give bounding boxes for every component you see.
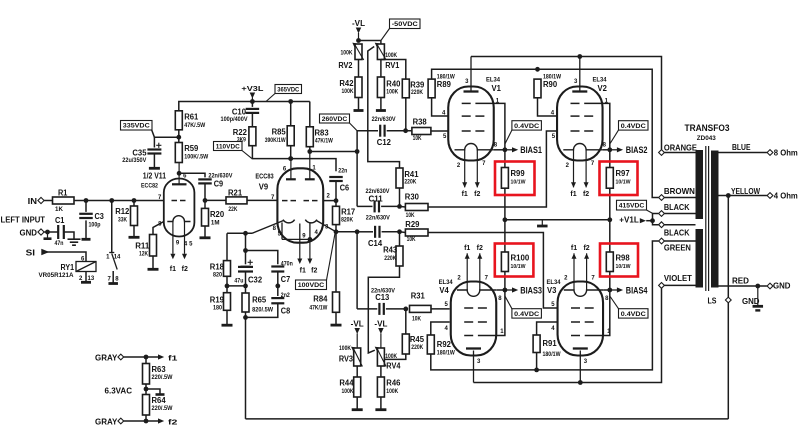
svg-text:R92: R92: [437, 340, 452, 349]
svg-text:f1: f1: [300, 268, 306, 275]
svg-text:12K: 12K: [139, 251, 148, 258]
svg-text:f2: f2: [168, 418, 177, 427]
svg-text:47K/1W: 47K/1W: [309, 304, 327, 311]
svg-text:V4: V4: [439, 285, 449, 295]
svg-text:R40: R40: [386, 79, 401, 88]
svg-text:VIOLET: VIOLET: [664, 274, 692, 283]
svg-text:-VL: -VL: [352, 19, 365, 28]
svg-text:LEFT INPUT: LEFT INPUT: [1, 214, 46, 224]
svg-text:f2: f2: [477, 245, 483, 252]
svg-text:100p/400V: 100p/400V: [221, 116, 249, 123]
svg-text:R61: R61: [184, 112, 199, 121]
svg-text:V3: V3: [547, 285, 557, 295]
svg-text:22K: 22K: [228, 206, 237, 213]
svg-text:R12: R12: [115, 207, 130, 216]
svg-text:BIAS4: BIAS4: [626, 286, 648, 296]
svg-text:47u: 47u: [234, 277, 243, 284]
svg-text:10/1W: 10/1W: [616, 179, 631, 185]
svg-text:220/.5W: 220/.5W: [152, 374, 173, 381]
svg-text:V1: V1: [492, 83, 502, 93]
svg-text:R63: R63: [152, 365, 167, 374]
svg-text:LS: LS: [708, 297, 717, 306]
svg-text:220K: 220K: [411, 344, 423, 351]
svg-text:22n/630V: 22n/630V: [208, 172, 233, 179]
svg-text:22u/350V: 22u/350V: [122, 157, 147, 164]
svg-text:R1: R1: [58, 188, 68, 197]
svg-text:f1: f1: [571, 245, 577, 252]
svg-text:C12: C12: [377, 138, 392, 147]
svg-text:10K: 10K: [407, 236, 416, 243]
svg-text:BIAS2: BIAS2: [626, 145, 648, 155]
svg-text:R44: R44: [339, 379, 354, 388]
svg-text:BLACK: BLACK: [664, 203, 690, 212]
svg-text:180/1W: 180/1W: [437, 350, 455, 357]
svg-text:100K: 100K: [385, 52, 397, 59]
svg-text:TRANSFO3: TRANSFO3: [685, 123, 730, 133]
svg-text:C13: C13: [375, 293, 390, 302]
svg-text:GRAY: GRAY: [95, 417, 118, 426]
svg-text:YELLOW: YELLOW: [731, 187, 760, 196]
svg-text:415VDC: 415VDC: [619, 203, 645, 210]
svg-text:390K/1W: 390K/1W: [265, 137, 286, 144]
svg-text:8 Ohm: 8 Ohm: [774, 148, 798, 157]
svg-text:R43: R43: [383, 245, 398, 254]
svg-text:10/1W: 10/1W: [616, 264, 631, 270]
svg-text:f1: f1: [570, 191, 576, 198]
svg-text:f2: f2: [474, 191, 480, 198]
svg-text:f1: f1: [462, 191, 468, 198]
svg-text:C32: C32: [248, 275, 263, 284]
svg-text:ZD043: ZD043: [697, 135, 716, 142]
svg-text:R100: R100: [511, 253, 530, 262]
svg-text:f1: f1: [168, 354, 177, 363]
svg-text:RV1: RV1: [385, 61, 400, 70]
svg-text:V2: V2: [598, 83, 608, 93]
svg-text:180: 180: [213, 304, 222, 311]
svg-text:R17: R17: [341, 207, 356, 216]
svg-text:820/.5W: 820/.5W: [252, 306, 273, 313]
svg-text:C1: C1: [55, 216, 65, 225]
svg-text:335VDC: 335VDC: [123, 123, 150, 130]
svg-text:10/1W: 10/1W: [511, 179, 526, 185]
svg-text:260VDC: 260VDC: [322, 116, 348, 123]
svg-text:0.4VDC: 0.4VDC: [621, 123, 647, 130]
svg-text:365VDC: 365VDC: [277, 86, 299, 93]
svg-text:R45: R45: [410, 335, 425, 344]
svg-text:180/1W: 180/1W: [543, 351, 561, 358]
svg-text:100K: 100K: [386, 388, 398, 395]
svg-text:R31: R31: [411, 291, 426, 300]
svg-text:R65: R65: [252, 296, 267, 305]
svg-text:100K/.5W: 100K/.5W: [184, 154, 208, 161]
svg-text:IN: IN: [28, 197, 38, 206]
svg-text:R64: R64: [152, 396, 167, 405]
svg-text:+V1L: +V1L: [619, 216, 639, 225]
svg-text:-VL: -VL: [374, 319, 387, 328]
svg-text:SI: SI: [26, 248, 35, 257]
svg-text:33K: 33K: [118, 217, 127, 224]
svg-text:R98: R98: [616, 253, 631, 262]
svg-text:0.4VDC: 0.4VDC: [514, 123, 540, 130]
svg-text:f2: f2: [182, 266, 188, 273]
svg-text:f2: f2: [583, 245, 589, 252]
svg-text:100p: 100p: [89, 221, 101, 228]
svg-text:6.3VAC: 6.3VAC: [105, 386, 133, 395]
svg-text:C7: C7: [281, 275, 291, 284]
svg-text:R42: R42: [339, 79, 354, 88]
svg-text:GND: GND: [20, 228, 38, 237]
svg-text:470n: 470n: [281, 260, 293, 267]
svg-text:100K: 100K: [342, 88, 354, 95]
svg-text:ORANGE: ORANGE: [664, 143, 697, 152]
svg-text:820: 820: [213, 271, 222, 278]
svg-text:R89: R89: [437, 80, 452, 89]
svg-text:100VDC: 100VDC: [298, 282, 325, 289]
svg-text:-50VDC: -50VDC: [392, 21, 418, 28]
svg-text:C11: C11: [369, 194, 384, 203]
svg-text:C3: C3: [95, 211, 105, 221]
svg-text:ECC83: ECC83: [255, 173, 273, 180]
svg-text:R30: R30: [405, 192, 420, 201]
svg-text:220K: 220K: [404, 178, 416, 185]
svg-text:R19: R19: [210, 295, 225, 304]
svg-text:1M: 1M: [211, 219, 220, 226]
svg-text:BIAS3: BIAS3: [520, 286, 542, 296]
svg-text:14: 14: [114, 254, 121, 260]
svg-text:RED: RED: [732, 277, 749, 286]
svg-text:BLACK: BLACK: [664, 228, 690, 237]
svg-text:100K: 100K: [341, 49, 353, 56]
svg-text:R11: R11: [135, 241, 150, 250]
svg-text:R39: R39: [410, 80, 425, 89]
svg-text:47K/1W: 47K/1W: [315, 137, 333, 144]
svg-text:ECC82: ECC82: [141, 182, 158, 189]
svg-text:22n: 22n: [338, 168, 347, 175]
svg-text:BIAS1: BIAS1: [520, 145, 542, 155]
svg-text:100K: 100K: [385, 353, 397, 360]
svg-text:V9: V9: [259, 181, 269, 191]
svg-text:R38: R38: [413, 117, 428, 126]
svg-text:BLUE: BLUE: [732, 143, 751, 152]
svg-text:C6: C6: [340, 184, 350, 193]
svg-text:R59: R59: [184, 144, 199, 153]
svg-text:0.4VDC: 0.4VDC: [621, 311, 647, 318]
svg-text:100K: 100K: [339, 345, 351, 352]
svg-text:4 Ohm: 4 Ohm: [774, 192, 798, 201]
svg-text:f1: f1: [464, 245, 470, 252]
svg-text:GND: GND: [742, 297, 760, 306]
svg-text:10/1W: 10/1W: [511, 264, 526, 270]
svg-text:GRAY: GRAY: [95, 353, 118, 362]
svg-text:f1: f1: [170, 266, 176, 273]
svg-text:110VDC: 110VDC: [216, 143, 240, 150]
svg-text:R20: R20: [210, 210, 225, 219]
svg-text:-VL: -VL: [351, 319, 364, 328]
svg-text:R29: R29: [405, 220, 420, 229]
svg-text:BROWN: BROWN: [664, 187, 695, 196]
svg-text:GND: GND: [773, 282, 791, 291]
svg-text:220K: 220K: [411, 89, 423, 96]
svg-text:R90: R90: [543, 80, 558, 89]
svg-text:f2: f2: [311, 268, 317, 275]
svg-text:47n: 47n: [55, 240, 64, 247]
svg-text:f2: f2: [583, 191, 589, 198]
svg-text:R99: R99: [511, 169, 526, 178]
svg-text:RV3: RV3: [339, 355, 354, 364]
svg-text:C14: C14: [368, 239, 383, 248]
svg-text:R46: R46: [386, 379, 401, 388]
svg-text:R18: R18: [210, 262, 225, 271]
svg-text:R91: R91: [543, 339, 558, 348]
svg-text:100K: 100K: [342, 388, 354, 395]
svg-text:RV4: RV4: [386, 362, 401, 371]
svg-text:C8: C8: [281, 307, 291, 316]
svg-text:0.4VDC: 0.4VDC: [514, 311, 540, 318]
svg-text:220/.5W: 220/.5W: [152, 405, 173, 412]
svg-text:2n2: 2n2: [281, 292, 290, 299]
svg-text:47K/.5W: 47K/.5W: [184, 122, 205, 129]
svg-text:R21: R21: [228, 188, 243, 197]
svg-text:10K: 10K: [406, 212, 415, 219]
svg-text:22n/630V: 22n/630V: [372, 116, 397, 123]
svg-text:R85: R85: [272, 127, 287, 136]
svg-text:R83: R83: [315, 128, 330, 137]
svg-text:10K: 10K: [412, 315, 421, 322]
svg-text:1/2 V11: 1/2 V11: [143, 171, 167, 180]
svg-text:22n/630V: 22n/630V: [366, 215, 391, 222]
svg-text:VR05R121A: VR05R121A: [39, 272, 75, 279]
svg-text:100K: 100K: [386, 88, 398, 95]
svg-text:1K: 1K: [55, 206, 63, 213]
svg-text:GREEN: GREEN: [664, 244, 691, 253]
svg-text:R84: R84: [313, 294, 328, 303]
svg-text:R97: R97: [616, 169, 631, 178]
svg-text:C9: C9: [214, 180, 224, 189]
svg-text:RV2: RV2: [338, 61, 353, 70]
svg-text:10K: 10K: [413, 135, 422, 142]
svg-text:820K: 820K: [341, 216, 353, 223]
svg-text:220K: 220K: [384, 255, 396, 262]
svg-text:RY1: RY1: [61, 263, 75, 272]
svg-text:+V3L: +V3L: [241, 84, 263, 93]
